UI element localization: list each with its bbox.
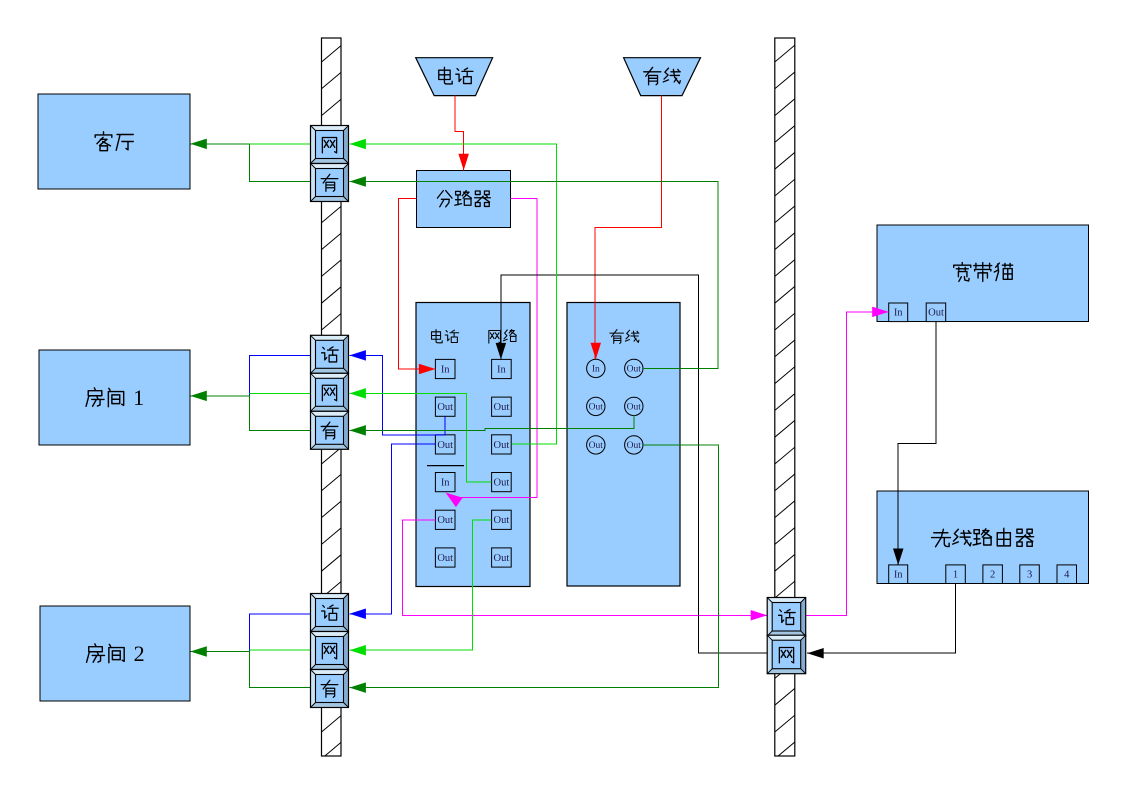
svg-text:2: 2 bbox=[134, 641, 145, 666]
port 电话 col row1 In bbox=[435, 359, 455, 378]
svg-text:1: 1 bbox=[133, 385, 144, 410]
router port 4 bbox=[1057, 565, 1077, 584]
wire darkgreen cable Out row1 to livingroom 有 plate bbox=[349, 176, 718, 368]
wall plate 话 (wall 2) bbox=[767, 598, 806, 637]
wire blue phone Out row3 to room2 话 plate bbox=[349, 444, 435, 619]
svg-text:In: In bbox=[894, 570, 903, 581]
box 分路器 (splitter) bbox=[417, 170, 511, 227]
wire green livingroom 网 plate to junction bbox=[249, 143, 311, 145]
router port 2 bbox=[983, 565, 1003, 584]
wire green network Out row4 to room1 网 plate bbox=[349, 388, 491, 482]
svg-text:Out: Out bbox=[494, 515, 510, 526]
wire darkgreen room1 有 plate junction into 房间1 bbox=[190, 391, 311, 431]
wire blue phone Out row2 to room1 话 plate bbox=[349, 350, 445, 435]
port 电话 col row5 Out bbox=[435, 510, 455, 529]
wire green network Out row3 to livingroom 网 plate bbox=[349, 139, 556, 444]
router port 1 bbox=[946, 565, 966, 584]
wire darkgreen room2 有 plate junction into 房间2 bbox=[190, 646, 311, 687]
trapezoid source 有线 (cable TV in) bbox=[624, 58, 701, 96]
svg-text:Out: Out bbox=[928, 308, 944, 319]
wall plate 网 (room 2) bbox=[311, 632, 349, 670]
wire green room2 网 plate to junction bbox=[250, 649, 311, 651]
wall 1 (left wall, hatched) bbox=[322, 38, 342, 759]
wall plate 话 (room 2) bbox=[311, 594, 349, 632]
svg-text:Out: Out bbox=[494, 553, 510, 564]
wall plate 网 (living room) bbox=[311, 126, 349, 164]
port 电话 col row6 Out bbox=[435, 548, 455, 567]
wire red splitter to phone In port bbox=[398, 198, 435, 374]
svg-text:Out: Out bbox=[589, 403, 604, 413]
port 电话 col row3 Out bbox=[435, 435, 455, 454]
box 房间 1 (room 1) bbox=[39, 350, 190, 445]
separator line in phone column bbox=[427, 465, 464, 467]
panel phone/network distribution frame bbox=[416, 303, 530, 587]
svg-text:In: In bbox=[441, 364, 450, 375]
svg-text:Out: Out bbox=[437, 515, 453, 526]
circle port cable row2 col1 Out bbox=[587, 397, 605, 415]
wire magenta phone Out to wall2 话 to modem In bbox=[403, 307, 889, 621]
svg-text:Out: Out bbox=[437, 553, 453, 564]
wire darkgreen livingroom 有 plate junction into 客厅 bbox=[190, 139, 311, 182]
wall plate 网 (room 1) bbox=[311, 373, 349, 411]
wire black modem Out to router In bbox=[893, 322, 936, 565]
wall plate 有 (living room) bbox=[311, 164, 349, 202]
wire black wall2 网 to 网络 In port bbox=[496, 275, 768, 653]
wire darkgreen cable Out row3 to room2 有 plate bbox=[349, 445, 718, 693]
wall 2 (right wall, hatched) bbox=[775, 38, 795, 759]
svg-text:Out: Out bbox=[494, 478, 510, 489]
svg-text:1: 1 bbox=[953, 570, 958, 581]
wire red phone-line to splitter bbox=[455, 96, 469, 171]
svg-text:Out: Out bbox=[437, 440, 453, 451]
circle port cable row2 col2 Out bbox=[625, 397, 643, 415]
box 无线路由器 (wireless router) bbox=[877, 491, 1089, 584]
modem port Out bbox=[926, 303, 946, 322]
svg-text:In: In bbox=[592, 365, 600, 375]
wall plate 有 (room 1) bbox=[311, 411, 349, 449]
wall plate 话 (room 1) bbox=[311, 335, 349, 373]
circle port cable row3 col1 Out bbox=[587, 436, 605, 454]
port 网络 col row4 Out bbox=[492, 473, 512, 492]
wire green network Out row5 to room2 网 plate bbox=[349, 520, 491, 656]
port 网络 col row1 In bbox=[492, 359, 512, 378]
circle port cable row3 col2 Out bbox=[625, 436, 643, 454]
svg-text:Out: Out bbox=[494, 402, 510, 413]
svg-text:In: In bbox=[497, 364, 506, 375]
port 网络 col row6 Out bbox=[492, 548, 512, 567]
svg-text:Out: Out bbox=[627, 365, 642, 375]
port 电话 col row4 In bbox=[435, 473, 455, 492]
trapezoid source 电话 (phone line in) bbox=[416, 58, 493, 96]
wire blue room1 话 plate to junction bbox=[250, 355, 311, 396]
wall plate 网 (wall 2) bbox=[767, 635, 806, 674]
router port In bbox=[889, 565, 908, 584]
box 房间 2 (room 2) bbox=[40, 606, 190, 701]
svg-text:In: In bbox=[441, 478, 450, 489]
svg-text:Out: Out bbox=[627, 403, 642, 413]
box 宽带猫 (broadband modem) bbox=[877, 225, 1089, 322]
svg-text:4: 4 bbox=[1064, 570, 1070, 581]
svg-text:Out: Out bbox=[494, 440, 510, 451]
svg-text:Out: Out bbox=[589, 441, 604, 451]
svg-text:Out: Out bbox=[437, 402, 453, 413]
wire blue room2 话 plate to junction bbox=[250, 614, 311, 652]
panel cable TV splitter bbox=[567, 303, 680, 587]
wire green room1 网 plate to junction bbox=[250, 392, 311, 394]
circle port cable row1 col1 In bbox=[587, 359, 605, 377]
svg-text:Out: Out bbox=[627, 441, 642, 451]
box 客厅 (living room) bbox=[38, 94, 190, 189]
svg-text:2: 2 bbox=[990, 570, 995, 581]
port 网络 col row5 Out bbox=[492, 510, 512, 529]
router port 3 bbox=[1020, 565, 1040, 584]
wire magenta splitter to phone In (row4) bbox=[446, 198, 538, 507]
port 网络 col row2 Out bbox=[492, 397, 512, 416]
svg-text:3: 3 bbox=[1027, 570, 1032, 581]
wall plate 有 (room 2) bbox=[311, 670, 349, 708]
port 电话 col row2 Out bbox=[435, 397, 455, 416]
circle port cable row1 col2 Out bbox=[625, 359, 643, 377]
wire black router port1 to wall2 网 bbox=[807, 584, 955, 659]
wire darkgreen cable Out row2 to room1 有 plate bbox=[349, 416, 633, 436]
wire red cable-line to cable panel In bbox=[591, 96, 662, 360]
svg-text:In: In bbox=[894, 308, 903, 319]
port 网络 col row3 Out bbox=[492, 435, 512, 454]
modem port In bbox=[889, 303, 908, 322]
